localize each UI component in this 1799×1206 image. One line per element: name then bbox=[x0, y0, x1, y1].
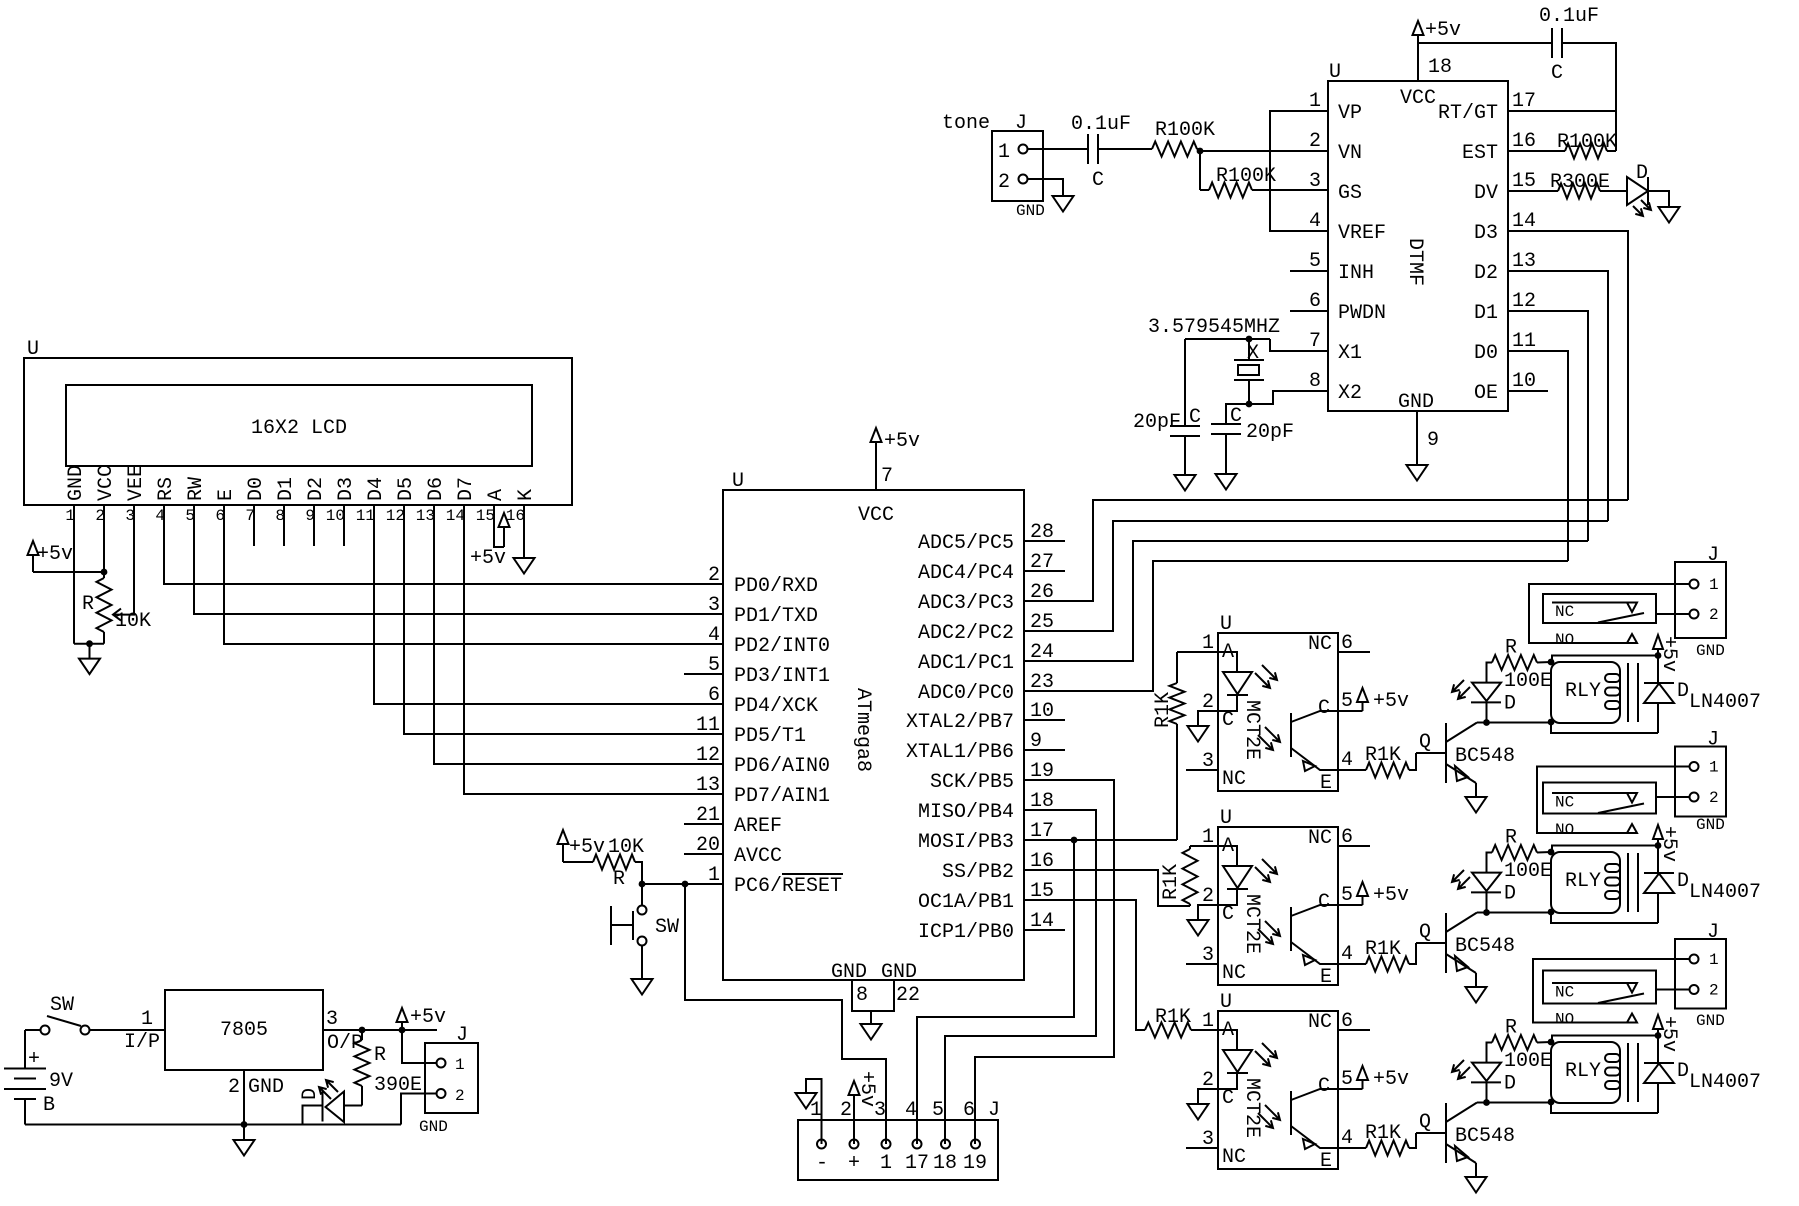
ATmega8 pin 18 MISO/PB4 bbox=[918, 790, 1054, 824]
wire capacitor to EST/RT-GT node bbox=[1562, 43, 1616, 151]
svg-text:GND: GND bbox=[248, 1076, 284, 1099]
svg-text:X1: X1 bbox=[1338, 342, 1362, 365]
junction VCC/pot bbox=[101, 569, 108, 576]
connector J (ISP/power 6-pin) bbox=[798, 1099, 1000, 1180]
svg-text:-: - bbox=[816, 1152, 828, 1175]
svg-text:D0: D0 bbox=[1474, 342, 1498, 365]
LED D (DV indicator) bbox=[1627, 162, 1651, 216]
svg-text:4: 4 bbox=[708, 624, 720, 647]
svg-text:K: K bbox=[515, 489, 538, 501]
svg-text:15: 15 bbox=[1512, 170, 1536, 193]
ATmega8 pin 2 PD0/RXD bbox=[708, 564, 818, 598]
svg-text:PD4/XCK: PD4/XCK bbox=[734, 695, 818, 718]
svg-text:PWDN: PWDN bbox=[1338, 302, 1386, 325]
svg-text:100E: 100E bbox=[1504, 1050, 1552, 1073]
ground at MCT2E pin 2 (channel 2) bbox=[1188, 905, 1219, 936]
svg-text:R1K: R1K bbox=[1365, 744, 1401, 767]
svg-text:1: 1 bbox=[880, 1152, 892, 1175]
transistor Q BC548 (channel 3) bbox=[1416, 1103, 1515, 1178]
svg-text:15: 15 bbox=[476, 507, 495, 525]
wire ADC0/PC0 to DTMF D0 bbox=[1024, 561, 1568, 691]
svg-text:2: 2 bbox=[1309, 130, 1321, 153]
battery B 9V bbox=[4, 1030, 73, 1125]
svg-text:+: + bbox=[28, 1048, 40, 1071]
ground at MCT2E pin 2 (channel 3) bbox=[1188, 1089, 1219, 1120]
MCT2E pin 4 E (channel 2) bbox=[1320, 943, 1353, 989]
transistor Q BC548 (channel 1) bbox=[1416, 723, 1515, 798]
wire LCD D5 to ATmega8 PD5 bbox=[404, 505, 723, 734]
flyback diode D LN4007 (channel 2) bbox=[1644, 846, 1761, 924]
svg-text:+5v: +5v bbox=[1373, 884, 1409, 907]
switch SW (power) bbox=[25, 994, 90, 1035]
svg-text:D2: D2 bbox=[1474, 262, 1498, 285]
DTMF pin 1 VP bbox=[1309, 90, 1362, 125]
svg-text:B: B bbox=[43, 1094, 55, 1117]
svg-text:20pF: 20pF bbox=[1133, 411, 1181, 434]
svg-text:10K: 10K bbox=[608, 836, 644, 859]
node crystal top bbox=[1185, 336, 1270, 343]
crystal X 3.579545MHZ bbox=[1148, 316, 1280, 404]
svg-text:VN: VN bbox=[1338, 142, 1362, 165]
resistor R 100E (channel 3) bbox=[1492, 1017, 1552, 1074]
ground at transistor emitter (channel 3) bbox=[1466, 1177, 1487, 1193]
ATmega8 pin 16 SS/PB2 bbox=[942, 850, 1054, 884]
wire ADC1/PC1 to DTMF D1 bbox=[1024, 541, 1588, 661]
MCT2E pin 6 NC (channel 1) bbox=[1308, 632, 1370, 656]
svg-text:4: 4 bbox=[1309, 210, 1321, 233]
svg-text:+5v: +5v bbox=[884, 430, 920, 453]
svg-text:8: 8 bbox=[1309, 370, 1321, 393]
svg-text:LN4007: LN4007 bbox=[1689, 691, 1761, 714]
svg-text:MCT2E: MCT2E bbox=[1240, 1078, 1263, 1138]
svg-text:1: 1 bbox=[455, 1056, 465, 1074]
svg-text:R: R bbox=[1505, 827, 1517, 850]
ground at X1 capacitor bbox=[1175, 436, 1196, 491]
ATmega8 pin 6 PD4/XCK bbox=[708, 684, 818, 718]
svg-text:U: U bbox=[1329, 61, 1341, 84]
voltage regulator 7805 bbox=[165, 990, 323, 1070]
svg-text:13: 13 bbox=[1512, 250, 1536, 273]
svg-text:PD6/AIN0: PD6/AIN0 bbox=[734, 755, 830, 778]
svg-text:RS: RS bbox=[155, 477, 178, 501]
svg-text:NO: NO bbox=[1555, 821, 1574, 839]
wire reset node bbox=[635, 862, 723, 887]
svg-text:C: C bbox=[1551, 62, 1563, 85]
LCD display inner box 16X2 LCD bbox=[66, 385, 532, 466]
svg-text:3: 3 bbox=[326, 1008, 338, 1031]
stub LCD D2 bbox=[313, 505, 315, 546]
resistor R300E (DV LED) bbox=[1508, 171, 1627, 199]
svg-text:ATmega8: ATmega8 bbox=[851, 688, 874, 772]
svg-text:J: J bbox=[1707, 729, 1719, 752]
MCT2E pin 2 C (channel 2) bbox=[1202, 885, 1234, 926]
relay coil RLY (channel 1) bbox=[1551, 662, 1638, 723]
wire collector node (channel 3) bbox=[1477, 1103, 1658, 1114]
svg-text:12: 12 bbox=[386, 507, 405, 525]
svg-text:5: 5 bbox=[1341, 690, 1353, 713]
ATmega8 pin 25 ADC2/PC2 bbox=[918, 611, 1054, 645]
DTMF pin 9 GND wire bbox=[1417, 411, 1439, 465]
ATmega8 pin 23 ADC0/PC0 bbox=[918, 671, 1054, 705]
svg-text:5: 5 bbox=[1341, 1068, 1353, 1091]
svg-text:R: R bbox=[1505, 1017, 1517, 1040]
MCT2E pin 1 A (channel 2) bbox=[1202, 826, 1234, 858]
DTMF pin 2 VN bbox=[1309, 130, 1362, 165]
svg-text:6: 6 bbox=[963, 1099, 975, 1122]
wire DTMF D2 down bbox=[1508, 271, 1608, 521]
svg-text:R1K: R1K bbox=[1160, 864, 1183, 900]
capacitor C 0.1uF (tone coupling) bbox=[1071, 113, 1131, 192]
svg-text:GND: GND bbox=[65, 465, 88, 501]
ATmega8 pin 15 OC1A/PB1 bbox=[918, 880, 1054, 914]
LCD pin 7 label D0 bbox=[245, 477, 268, 525]
LCD pin 15 label A bbox=[476, 489, 508, 525]
ATmega8 pin 24 ADC1/PC1 bbox=[918, 641, 1054, 675]
svg-text:9: 9 bbox=[1427, 429, 1439, 452]
svg-text:U: U bbox=[1220, 613, 1232, 636]
svg-text:5: 5 bbox=[932, 1099, 944, 1122]
+5v supply rail at relay (channel 1) bbox=[1548, 635, 1680, 725]
wire DTMF VP to VREF bbox=[1270, 111, 1328, 231]
svg-text:RLY: RLY bbox=[1565, 870, 1601, 893]
svg-text:11: 11 bbox=[696, 714, 720, 737]
DTMF pin 4 VREF bbox=[1309, 210, 1386, 245]
svg-text:LN4007: LN4007 bbox=[1689, 881, 1761, 904]
ATmega8 pin 21 AREF bbox=[684, 804, 782, 838]
svg-text:C: C bbox=[1318, 1075, 1330, 1098]
svg-text:2: 2 bbox=[1709, 789, 1719, 807]
svg-text:ADC5/PC5: ADC5/PC5 bbox=[918, 532, 1014, 555]
LCD module U 16X2 outer box bbox=[24, 338, 572, 505]
DTMF pin 15 DV bbox=[1474, 170, 1536, 205]
DTMF pin 8 X2 bbox=[1309, 370, 1362, 405]
MCT2E pin 3 NC (channel 2) bbox=[1186, 944, 1246, 985]
svg-text:U: U bbox=[1220, 991, 1232, 1014]
svg-text:12: 12 bbox=[696, 744, 720, 767]
svg-text:NO: NO bbox=[1555, 1011, 1574, 1029]
svg-text:BC548: BC548 bbox=[1455, 1125, 1515, 1148]
svg-text:SCK/PB5: SCK/PB5 bbox=[930, 771, 1014, 794]
svg-text:X2: X2 bbox=[1338, 382, 1362, 405]
transistor Q BC548 (channel 2) bbox=[1416, 913, 1515, 988]
svg-text:+5v: +5v bbox=[1657, 636, 1680, 672]
svg-text:C: C bbox=[1318, 891, 1330, 914]
ATmega8 pin 11 PD5/T1 bbox=[696, 714, 806, 748]
svg-text:1: 1 bbox=[1709, 951, 1719, 969]
svg-text:E: E bbox=[215, 489, 238, 501]
svg-text:VCC: VCC bbox=[95, 465, 118, 501]
svg-text:4: 4 bbox=[1341, 943, 1353, 966]
MCT2E internal LED (channel 3) bbox=[1218, 1030, 1277, 1089]
svg-text:INH: INH bbox=[1338, 262, 1374, 285]
svg-text:R1K: R1K bbox=[1155, 1006, 1191, 1029]
wire switch to regulator I/P bbox=[90, 1008, 165, 1054]
svg-text:D7: D7 bbox=[455, 477, 478, 501]
DTMF pin 3 GS bbox=[1309, 170, 1362, 205]
svg-text:GND: GND bbox=[1696, 816, 1725, 834]
wire MISO/PB4 to connector pin 5 bbox=[945, 810, 1096, 1144]
svg-text:J: J bbox=[1707, 921, 1719, 944]
+5v supply at connector pin 2 bbox=[849, 1071, 879, 1144]
svg-text:J: J bbox=[1015, 112, 1027, 135]
svg-text:+5v: +5v bbox=[37, 543, 73, 566]
wire LCD D4 to ATmega8 PD4 bbox=[374, 505, 723, 704]
LCD pin 10 label D3 bbox=[326, 477, 358, 525]
svg-text:+5v: +5v bbox=[1657, 1016, 1680, 1052]
svg-text:PD5/T1: PD5/T1 bbox=[734, 725, 806, 748]
ATmega8 pin 4 PD2/INT0 bbox=[708, 624, 830, 658]
svg-text:GND: GND bbox=[1398, 391, 1434, 414]
svg-text:13: 13 bbox=[416, 507, 435, 525]
svg-text:5: 5 bbox=[1309, 250, 1321, 273]
resistor R1K (channel 3 base) bbox=[1338, 1122, 1416, 1156]
ATmega8 pin 9 XTAL1/PB6 bbox=[906, 730, 1065, 764]
node crystal bottom bbox=[1246, 401, 1253, 408]
wire SS/PB2 to channel 2 input bbox=[1024, 870, 1190, 906]
wire LCD D6 to ATmega8 PD6 bbox=[434, 505, 723, 764]
svg-text:PD1/TXD: PD1/TXD bbox=[734, 605, 818, 628]
ATmega8 pin 14 ICP1/PB0 bbox=[918, 910, 1065, 944]
ATmega8 pin 1 PC6/RESET bbox=[708, 864, 843, 898]
MCT2E pin 3 NC (channel 3) bbox=[1186, 1128, 1246, 1169]
ATmega8 pin 27 ADC4/PC4 bbox=[918, 551, 1065, 585]
regulator GND pin 2 bbox=[228, 1070, 284, 1125]
svg-text:SW: SW bbox=[50, 994, 74, 1017]
wire OC1A/PB1 to channel 3 input bbox=[1024, 900, 1145, 1030]
svg-text:GND: GND bbox=[1696, 1012, 1725, 1030]
ground at LCD backlight K bbox=[514, 505, 535, 574]
opto-coupler U MCT2E (channel 2) bbox=[1218, 807, 1338, 985]
LCD pin 13 label D6 bbox=[416, 477, 448, 525]
MCT2E internal LED (channel 2) bbox=[1218, 846, 1277, 905]
relay contact set NC/NO (channel 3) bbox=[1533, 959, 1690, 1029]
svg-text:+5v: +5v bbox=[1657, 826, 1680, 862]
svg-text:1: 1 bbox=[810, 1099, 822, 1122]
resistor R 10K (reset pull-up) bbox=[563, 855, 635, 892]
svg-text:GND: GND bbox=[881, 961, 917, 984]
svg-text:D: D bbox=[1504, 1073, 1516, 1096]
ground at connector pin 1 bbox=[796, 1079, 822, 1144]
svg-text:BC548: BC548 bbox=[1455, 745, 1515, 768]
svg-text:J: J bbox=[1707, 544, 1719, 567]
svg-text:C: C bbox=[1189, 406, 1201, 429]
svg-text:GND: GND bbox=[1016, 202, 1045, 220]
svg-text:GND: GND bbox=[831, 961, 867, 984]
+5v supply at DTMF VCC bbox=[1413, 19, 1462, 43]
svg-text:tone: tone bbox=[942, 112, 990, 135]
DTMF pin 10 OE bbox=[1474, 370, 1548, 405]
LCD pin 4 label RS bbox=[155, 477, 178, 525]
capacitor C 20pF (X1) bbox=[1133, 339, 1201, 436]
ground at tone connector pin 2 bbox=[1028, 179, 1074, 212]
svg-text:VEE: VEE bbox=[125, 465, 148, 501]
svg-text:2: 2 bbox=[228, 1076, 240, 1099]
svg-text:Q: Q bbox=[1419, 921, 1431, 944]
svg-text:9V: 9V bbox=[49, 1070, 73, 1093]
svg-text:NO: NO bbox=[1555, 631, 1574, 649]
wire +5v node to connector pin 1 bbox=[402, 1030, 436, 1063]
DTMF pin 14 D3 bbox=[1474, 210, 1536, 245]
MCT2E pin 6 NC (channel 2) bbox=[1308, 826, 1370, 850]
svg-text:ADC0/PC0: ADC0/PC0 bbox=[918, 682, 1014, 705]
svg-text:D: D bbox=[1677, 680, 1689, 703]
flyback diode D LN4007 (channel 1) bbox=[1644, 656, 1761, 734]
svg-text:A: A bbox=[485, 489, 508, 501]
wire MOSI/PB3 to channel 1 and connector pin 4 bbox=[917, 837, 1177, 1144]
+5v supply at regulator output bbox=[397, 1006, 447, 1030]
wire LCD pin2 VCC down to pot bbox=[103, 505, 105, 572]
wire reset node to connector pin 3 bbox=[685, 884, 886, 1144]
MCT2E pin 5 C (channel 2) bbox=[1318, 884, 1353, 914]
svg-text:+5v: +5v bbox=[1425, 19, 1461, 42]
svg-text:14: 14 bbox=[446, 507, 465, 525]
microcontroller U ATmega8 bbox=[723, 470, 1024, 984]
svg-text:R: R bbox=[374, 1044, 386, 1067]
svg-text:VCC: VCC bbox=[1400, 87, 1436, 110]
svg-text:XTAL1/PB6: XTAL1/PB6 bbox=[906, 741, 1014, 764]
svg-text:8: 8 bbox=[856, 984, 868, 1007]
+5v supply rail at relay (channel 3) bbox=[1548, 1015, 1680, 1105]
svg-text:6: 6 bbox=[708, 684, 720, 707]
svg-text:I/P: I/P bbox=[124, 1031, 160, 1054]
wire regulator O/P bbox=[323, 1008, 437, 1055]
svg-text:PD7/AIN1: PD7/AIN1 bbox=[734, 785, 830, 808]
svg-text:D6: D6 bbox=[425, 477, 448, 501]
svg-text:+5v: +5v bbox=[1373, 1068, 1409, 1091]
ATmega8 pin 12 PD6/AIN0 bbox=[696, 744, 830, 778]
wire tone pin 1 to capacitor bbox=[1028, 148, 1088, 150]
MCT2E internal phototransistor (channel 2) bbox=[1258, 905, 1338, 965]
LED D (power indicator) bbox=[299, 1080, 362, 1125]
svg-text:7805: 7805 bbox=[220, 1019, 268, 1042]
svg-text:2: 2 bbox=[998, 171, 1010, 194]
svg-text:D4: D4 bbox=[365, 477, 388, 501]
DTMF pin 17 RT/GT bbox=[1438, 90, 1536, 125]
svg-text:E: E bbox=[1320, 1150, 1332, 1173]
svg-text:+5v: +5v bbox=[410, 1006, 446, 1029]
svg-text:+5v: +5v bbox=[569, 836, 605, 859]
svg-text:U: U bbox=[732, 470, 744, 493]
MCT2E pin 4 E (channel 3) bbox=[1320, 1127, 1353, 1173]
svg-text:D: D bbox=[299, 1088, 322, 1100]
DTMF pin 11 D0 bbox=[1474, 330, 1536, 365]
LCD pin 5 label RW bbox=[185, 477, 208, 525]
ATmega8 pin 26 ADC3/PC3 bbox=[918, 581, 1054, 615]
svg-text:PD0/RXD: PD0/RXD bbox=[734, 575, 818, 598]
svg-text:22: 22 bbox=[896, 984, 920, 1007]
opto-coupler U MCT2E (channel 3) bbox=[1218, 991, 1338, 1169]
DTMF pin 13 D2 bbox=[1474, 250, 1536, 285]
svg-text:12: 12 bbox=[1512, 290, 1536, 313]
wire ground rail to connector pin 2 bbox=[401, 1094, 436, 1125]
svg-text:NC: NC bbox=[1555, 794, 1574, 812]
MCT2E pin 5 C (channel 3) bbox=[1318, 1068, 1353, 1098]
svg-text:0.1uF: 0.1uF bbox=[1539, 5, 1599, 28]
svg-text:C: C bbox=[1230, 405, 1242, 428]
LCD pin 11 label D4 bbox=[356, 477, 388, 525]
svg-text:C: C bbox=[1318, 697, 1330, 720]
ground at transistor emitter (channel 2) bbox=[1466, 987, 1487, 1003]
relay contact set NC/NO (channel 1) bbox=[1529, 584, 1690, 649]
node VN junction bbox=[1197, 148, 1204, 155]
svg-text:3: 3 bbox=[708, 594, 720, 617]
wire LCD E to ATmega8 PD2 bbox=[224, 505, 723, 644]
resistor R1K (channel 1 base) bbox=[1338, 744, 1416, 778]
svg-text:18: 18 bbox=[933, 1152, 957, 1175]
svg-text:RT/GT: RT/GT bbox=[1438, 102, 1498, 125]
svg-text:10: 10 bbox=[1512, 370, 1536, 393]
wire DTMF RT/GT pin 17 bbox=[1508, 110, 1616, 112]
svg-text:C: C bbox=[1092, 169, 1104, 192]
svg-text:7: 7 bbox=[881, 465, 893, 488]
ground at transistor emitter (channel 1) bbox=[1466, 797, 1487, 813]
svg-text:NC: NC bbox=[1222, 768, 1246, 791]
svg-text:D: D bbox=[1504, 883, 1516, 906]
ground at DTMF GND bbox=[1407, 465, 1428, 481]
MCT2E internal phototransistor (channel 3) bbox=[1258, 1089, 1338, 1149]
svg-text:19: 19 bbox=[963, 1152, 987, 1175]
svg-text:18: 18 bbox=[1428, 56, 1452, 79]
svg-text:C: C bbox=[1222, 709, 1234, 732]
LCD pin 9 label D2 bbox=[305, 477, 328, 525]
svg-text:D: D bbox=[1677, 870, 1689, 893]
svg-text:NC: NC bbox=[1308, 827, 1332, 850]
svg-text:D3: D3 bbox=[335, 477, 358, 501]
push switch SW (reset) bbox=[611, 884, 679, 946]
MCT2E internal LED (channel 1) bbox=[1218, 652, 1277, 711]
svg-text:2: 2 bbox=[840, 1099, 852, 1122]
svg-text:MCT2E: MCT2E bbox=[1240, 894, 1263, 954]
svg-text:R300E: R300E bbox=[1550, 171, 1610, 194]
svg-text:U: U bbox=[1220, 807, 1232, 830]
resistor R1K (channel 2 input) bbox=[1158, 846, 1218, 906]
svg-text:4: 4 bbox=[1341, 749, 1353, 772]
svg-text:6: 6 bbox=[1309, 290, 1321, 313]
svg-text:R: R bbox=[1505, 637, 1517, 660]
DTMF pin 6 PWDN bbox=[1290, 290, 1386, 325]
resistor R1K (channel 2 base) bbox=[1338, 938, 1416, 972]
svg-text:1: 1 bbox=[141, 1008, 153, 1031]
relay contact set NC/NO (channel 2) bbox=[1537, 767, 1690, 840]
svg-text:+5v: +5v bbox=[470, 547, 506, 570]
svg-text:D: D bbox=[1636, 162, 1648, 185]
wire ADC2/PC2 to DTMF D2 bbox=[1024, 521, 1608, 631]
+5v supply at LCD backlight A bbox=[470, 505, 510, 570]
svg-text:OC1A/PB1: OC1A/PB1 bbox=[918, 891, 1014, 914]
svg-text:XTAL2/PB7: XTAL2/PB7 bbox=[906, 711, 1014, 734]
MCT2E pin 5 C (channel 1) bbox=[1318, 690, 1353, 720]
wire collector node (channel 1) bbox=[1477, 723, 1658, 734]
svg-text:ADC3/PC3: ADC3/PC3 bbox=[918, 592, 1014, 615]
wire resistor to DTMF GS bbox=[1252, 189, 1328, 191]
svg-text:20pF: 20pF bbox=[1246, 421, 1294, 444]
wire collector node (channel 2) bbox=[1477, 913, 1658, 924]
wire crystal bottom to DTMF X2 bbox=[1249, 391, 1328, 404]
svg-text:2: 2 bbox=[708, 564, 720, 587]
svg-text:RLY: RLY bbox=[1565, 680, 1601, 703]
svg-text:R: R bbox=[82, 593, 94, 616]
wire DTMF D1 down bbox=[1508, 311, 1588, 541]
svg-text:NC: NC bbox=[1222, 962, 1246, 985]
wire junction to DTMF VN bbox=[1200, 150, 1328, 152]
+5v supply at LCD pot bbox=[28, 541, 105, 572]
ground at power supply bbox=[234, 1125, 255, 1156]
svg-text:2: 2 bbox=[1709, 606, 1719, 624]
svg-text:R1K: R1K bbox=[1152, 692, 1175, 728]
svg-text:GND: GND bbox=[419, 1118, 448, 1136]
svg-text:+: + bbox=[848, 1152, 860, 1175]
svg-text:E: E bbox=[1320, 772, 1332, 795]
